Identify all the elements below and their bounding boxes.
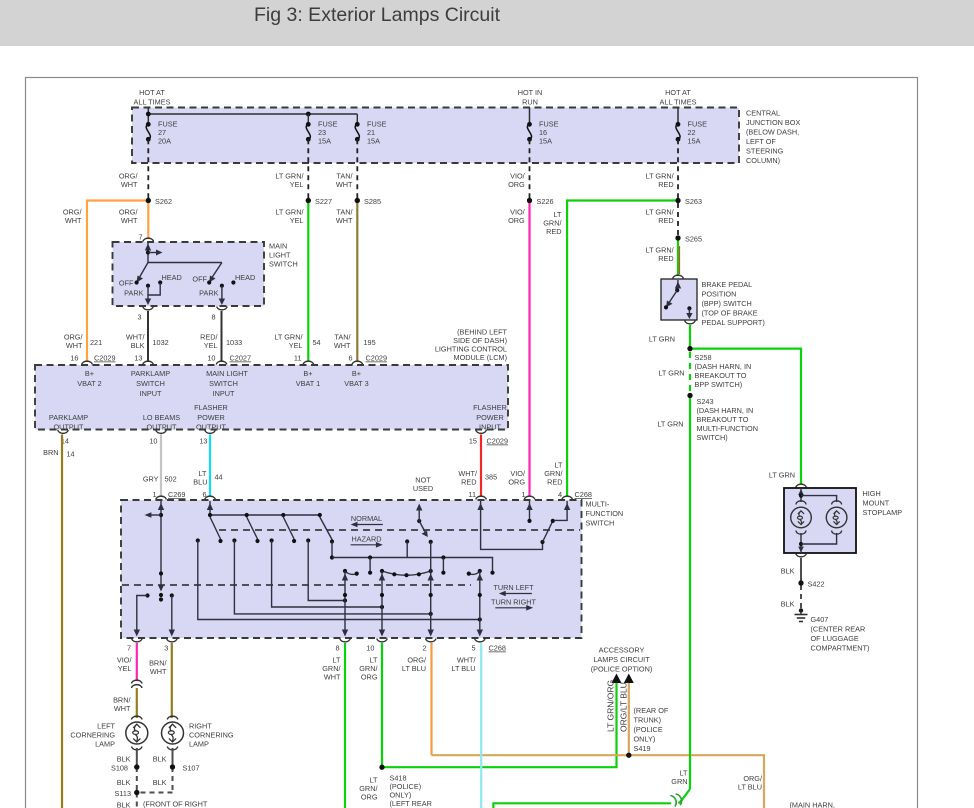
svg-text:15: 15 xyxy=(469,437,477,446)
svg-text:RED: RED xyxy=(461,478,476,487)
wire S419 to accessory lamps arrow (org/lt blu) xyxy=(628,683,630,755)
inline connector on left cornering feed xyxy=(132,680,143,683)
svg-text:(LEFT REAR: (LEFT REAR xyxy=(390,799,432,808)
MFS label NORMAL with arrow xyxy=(351,514,383,527)
svg-text:FLASHER: FLASHER xyxy=(194,403,228,412)
svg-text:RED: RED xyxy=(546,227,561,236)
svg-text:BLK: BLK xyxy=(781,600,795,609)
svg-text:LEFT OF: LEFT OF xyxy=(746,137,776,146)
svg-text:BPP SWITCH): BPP SWITCH) xyxy=(695,380,743,389)
svg-text:2: 2 xyxy=(422,644,426,653)
svg-text:221: 221 xyxy=(90,338,102,347)
MFS internal dashed detent line lower xyxy=(122,584,471,586)
svg-text:SWITCH: SWITCH xyxy=(586,519,615,528)
svg-text:1032: 1032 xyxy=(153,338,169,347)
svg-text:WHT: WHT xyxy=(65,216,82,225)
BPP internal switch xyxy=(664,280,693,319)
stoplamp internal wiring xyxy=(798,488,836,553)
dashed blk wires to S113 xyxy=(117,767,173,793)
svg-text:MODULE (LCM): MODULE (LCM) xyxy=(453,353,507,362)
svg-text:FLASHER: FLASHER xyxy=(473,403,507,412)
svg-text:CORNERING: CORNERING xyxy=(189,731,234,740)
svg-text:S113: S113 xyxy=(115,789,132,798)
wire S262 branch to LCM pin16 (orange) xyxy=(87,201,148,363)
wire S285 to LCM pin6 (tan) xyxy=(356,201,358,363)
svg-text:HOT AT: HOT AT xyxy=(139,88,165,97)
wire below S113 xyxy=(136,793,138,808)
svg-text:ACCESSORY: ACCESSORY xyxy=(599,646,645,655)
svg-text:RED: RED xyxy=(658,254,673,263)
svg-text:10: 10 xyxy=(366,644,374,653)
svg-text:BRN: BRN xyxy=(43,448,58,457)
wire fuse27 to S262 (dashed) xyxy=(147,139,149,198)
svg-text:(DASH HARN, IN: (DASH HARN, IN xyxy=(697,406,754,415)
MFS hazard pole and blade xyxy=(405,504,433,558)
LCM bottom pin 14 xyxy=(58,430,69,433)
label S419 rear of trunk xyxy=(634,706,669,753)
svg-text:NORMAL: NORMAL xyxy=(351,514,382,523)
svg-text:B+: B+ xyxy=(303,369,312,378)
svg-text:LT BLU: LT BLU xyxy=(451,664,475,673)
wire S263 branch to MFS pin4 (lt green) xyxy=(567,201,678,497)
MFS hanging contact 3 to pin 10 route xyxy=(270,538,385,609)
svg-text:16: 16 xyxy=(70,354,78,363)
svg-text:S243: S243 xyxy=(697,397,714,406)
wire LCM pin10 to MFS pin1 (gry) xyxy=(160,435,162,497)
title bar xyxy=(0,0,974,46)
splice S418 xyxy=(379,765,384,770)
CJB internal bus xyxy=(146,112,357,125)
svg-text:TURN RIGHT: TURN RIGHT xyxy=(491,598,537,607)
splice dots overlay xyxy=(134,198,803,795)
svg-text:YEL: YEL xyxy=(289,341,303,350)
wire S227 to LCM pin11 (lt green) xyxy=(307,201,309,363)
svg-text:OUTPUT: OUTPUT xyxy=(196,423,227,432)
svg-text:VBAT 1: VBAT 1 xyxy=(296,379,320,388)
MFS flasher blade 3 xyxy=(283,517,294,539)
svg-text:RUN: RUN xyxy=(522,98,538,107)
svg-text:C269: C269 xyxy=(168,490,185,499)
wire fuse23 to S227 (dashed) xyxy=(307,139,309,198)
svg-text:3: 3 xyxy=(137,313,141,322)
svg-text:C2027: C2027 xyxy=(230,354,252,363)
svg-text:OFF: OFF xyxy=(119,279,134,288)
svg-text:44: 44 xyxy=(215,473,223,482)
svg-text:USED: USED xyxy=(413,484,433,493)
svg-text:15A: 15A xyxy=(539,137,552,146)
svg-text:ORG: ORG xyxy=(361,673,378,682)
svg-text:BLU: BLU xyxy=(193,478,207,487)
svg-text:15A: 15A xyxy=(688,137,701,146)
svg-text:HOT AT: HOT AT xyxy=(665,88,691,97)
stoplamp bulb 1 xyxy=(791,501,812,534)
svg-text:VBAT 3: VBAT 3 xyxy=(344,379,368,388)
svg-text:(REAR OF: (REAR OF xyxy=(634,706,669,715)
svg-text:S226: S226 xyxy=(537,197,554,206)
MFS cornering pole from pin 1 xyxy=(145,501,165,602)
wire S258 to S243 (lt grn dashed) xyxy=(689,352,691,392)
svg-text:WHT: WHT xyxy=(336,180,353,189)
wire fuse22 to S263 (dashed) xyxy=(677,139,679,198)
svg-text:BLK: BLK xyxy=(153,755,167,764)
accessory feed arrow right xyxy=(624,674,634,684)
stoplamp bulb 2 xyxy=(826,501,847,534)
svg-text:INPUT: INPUT xyxy=(479,423,501,432)
svg-text:WHT: WHT xyxy=(324,673,341,682)
svg-text:14: 14 xyxy=(67,450,75,459)
left cornering lamp xyxy=(70,716,147,750)
MFS hanging contact 1 to pin 5 route xyxy=(196,538,482,621)
MFS hanging contact 2 to pin 2 route xyxy=(232,538,433,616)
svg-text:POSITION: POSITION xyxy=(702,290,737,299)
wire right lamp to S107 (blk) xyxy=(172,748,174,766)
MLS switch blade 2 (OFF/PARK/HEAD) xyxy=(192,263,255,306)
wire left lamp to S108 (blk) xyxy=(136,748,138,766)
svg-text:3: 3 xyxy=(164,644,168,653)
svg-text:11: 11 xyxy=(294,354,302,363)
MFS cornering right contact to pin 3 xyxy=(169,593,175,636)
svg-text:11: 11 xyxy=(468,490,476,499)
svg-text:8: 8 xyxy=(335,644,339,653)
wire BPP to S258 (lt grn) xyxy=(689,325,691,349)
svg-text:7: 7 xyxy=(127,644,131,653)
splice S108 xyxy=(134,764,139,769)
svg-text:S107: S107 xyxy=(183,764,200,773)
wire bend to rear harness connector xyxy=(679,789,691,803)
svg-text:PARKLAMP: PARKLAMP xyxy=(131,369,170,378)
svg-text:PEDAL SUPPORT): PEDAL SUPPORT) xyxy=(702,318,765,327)
svg-text:TRUNK): TRUNK) xyxy=(634,716,662,725)
svg-text:BRAKE PEDAL: BRAKE PEDAL xyxy=(702,280,753,289)
svg-text:MAIN LIGHT: MAIN LIGHT xyxy=(206,369,248,378)
svg-text:LT BLU: LT BLU xyxy=(402,664,426,673)
svg-text:502: 502 xyxy=(165,475,177,484)
wire MLS pin3 to LCM pin13 (wht/blk) xyxy=(147,311,149,362)
svg-text:G407: G407 xyxy=(811,615,829,624)
BPP connector bottom xyxy=(685,321,696,324)
svg-text:13: 13 xyxy=(134,354,142,363)
wire S262 to MLS pin7 (orange) xyxy=(147,201,149,240)
MFS hanging contact 4 to pin 8 route xyxy=(306,538,347,602)
svg-text:13: 13 xyxy=(199,437,207,446)
hot feed HOT AT ALL TIMES (right) xyxy=(660,88,697,124)
svg-text:POWER: POWER xyxy=(197,413,225,422)
svg-text:ORG: ORG xyxy=(508,180,525,189)
svg-text:HAZARD: HAZARD xyxy=(352,535,382,544)
svg-text:LT GRN: LT GRN xyxy=(769,471,795,480)
MFS label HAZARD with arrow xyxy=(351,535,383,548)
svg-text:LT BLU: LT BLU xyxy=(738,783,762,792)
svg-text:WHT: WHT xyxy=(114,704,131,713)
MFS cornering left contact to pin 7 xyxy=(134,593,150,636)
svg-text:S285: S285 xyxy=(364,197,381,206)
svg-text:YEL: YEL xyxy=(290,180,304,189)
svg-text:(MAIN HARN,: (MAIN HARN, xyxy=(790,801,835,808)
splice S262 xyxy=(146,198,151,203)
svg-text:(CENTER REAR: (CENTER REAR xyxy=(811,625,866,634)
svg-text:GRN: GRN xyxy=(671,777,687,786)
svg-text:8: 8 xyxy=(211,313,215,322)
svg-text:LEFT: LEFT xyxy=(97,722,115,731)
svg-text:(DASH HARN, IN: (DASH HARN, IN xyxy=(695,362,752,371)
wire MLS pin8 to LCM pin10 (red/yel) xyxy=(221,311,223,362)
accessory feed arrow left xyxy=(612,674,622,684)
wire stoplamp to S422 (blk) xyxy=(800,558,802,583)
wire S243 long run down (lt grn) xyxy=(689,396,691,790)
svg-text:S262: S262 xyxy=(155,197,172,206)
wire S263 to S265 (dashed) xyxy=(677,203,679,236)
svg-text:S422: S422 xyxy=(808,580,825,589)
svg-text:WHT: WHT xyxy=(121,180,138,189)
svg-text:BLK: BLK xyxy=(781,567,795,576)
svg-text:ORG: ORG xyxy=(361,793,378,802)
svg-text:LAMPS CIRCUIT: LAMPS CIRCUIT xyxy=(593,655,650,664)
wire MFS pin5 (wht/lt blu) down xyxy=(451,643,481,808)
svg-text:LT GRN: LT GRN xyxy=(657,420,683,429)
wire LCM pin13 to MFS pin6 (lt blu) xyxy=(209,435,211,497)
svg-text:(POLICE: (POLICE xyxy=(634,725,663,734)
wire fuse21 to S285 (dashed) xyxy=(356,139,358,198)
MFS internal dashed detent line upper xyxy=(219,529,580,531)
svg-text:20A: 20A xyxy=(158,137,171,146)
svg-text:JUNCTION BOX: JUNCTION BOX xyxy=(746,118,800,127)
svg-text:INPUT: INPUT xyxy=(140,389,162,398)
svg-text:15A: 15A xyxy=(318,137,331,146)
svg-text:1033: 1033 xyxy=(226,338,242,347)
svg-text:195: 195 xyxy=(364,338,376,347)
wire to left cornering lamp (brn/wht) xyxy=(113,688,137,718)
svg-text:ONLY): ONLY) xyxy=(634,735,656,744)
svg-text:TURN LEFT: TURN LEFT xyxy=(493,583,534,592)
rear lt grn horizontal wire xyxy=(493,803,671,808)
svg-text:YEL: YEL xyxy=(204,341,218,350)
splice S419 xyxy=(626,753,631,758)
stoplamp connector top xyxy=(796,484,807,487)
svg-text:STEERING: STEERING xyxy=(746,147,784,156)
svg-text:(BELOW DASH,: (BELOW DASH, xyxy=(746,128,799,137)
svg-text:SWITCH): SWITCH) xyxy=(697,433,728,442)
accessory lamps circuit label xyxy=(591,646,653,674)
splice S263 xyxy=(675,198,680,203)
MFS pin 8 internal vertical xyxy=(342,571,348,637)
svg-text:RED: RED xyxy=(547,478,562,487)
svg-text:MOUNT: MOUNT xyxy=(863,499,890,508)
svg-text:ALL TIMES: ALL TIMES xyxy=(660,98,697,107)
fuse 21 15A xyxy=(355,120,387,146)
svg-text:C2029: C2029 xyxy=(366,354,388,363)
MFS pin 5 internal vertical xyxy=(477,571,483,637)
svg-text:ORG: ORG xyxy=(508,478,525,487)
MLS pin 8 connector xyxy=(217,307,228,310)
svg-text:Fig 3: Exterior Lamps Circuit: Fig 3: Exterior Lamps Circuit xyxy=(254,4,501,26)
svg-text:S265: S265 xyxy=(685,235,702,244)
splice S422 xyxy=(798,580,803,585)
svg-text:HIGH: HIGH xyxy=(863,489,881,498)
svg-text:MULTI-: MULTI- xyxy=(586,500,610,509)
svg-text:SWITCH: SWITCH xyxy=(136,379,165,388)
svg-text:C268: C268 xyxy=(575,490,592,499)
svg-text:5: 5 xyxy=(471,644,475,653)
wire S418 to accessory lamps arrow (lt grn) xyxy=(382,683,617,767)
svg-text:ORG: ORG xyxy=(508,216,525,225)
wire S422 to ground (blk dashed) xyxy=(800,585,802,608)
svg-text:LT GRN: LT GRN xyxy=(658,369,684,378)
svg-text:RED: RED xyxy=(658,216,673,225)
svg-text:BLK: BLK xyxy=(117,778,131,787)
svg-text:HOT IN: HOT IN xyxy=(518,88,543,97)
svg-text:VBAT 2: VBAT 2 xyxy=(77,379,101,388)
svg-text:6: 6 xyxy=(348,354,352,363)
svg-text:BLK: BLK xyxy=(131,341,145,350)
wire LCM pin14 parklamp output (brn) xyxy=(61,435,63,808)
MLS pin 3 connector xyxy=(143,307,154,310)
BPP connector top xyxy=(673,275,684,278)
wire S419 horizontal to right drop (org/lt blu) xyxy=(432,755,765,808)
LCM bottom pin 13 xyxy=(205,430,216,433)
wire S258 to high mount stoplamp (lt grn) xyxy=(690,349,801,484)
svg-text:(POLICE OPTION): (POLICE OPTION) xyxy=(591,665,653,674)
MFS flasher feed bus from pin 6 xyxy=(207,501,322,517)
splice S226 xyxy=(527,198,532,203)
lighting control module box xyxy=(35,365,508,432)
svg-text:C2029: C2029 xyxy=(94,354,116,363)
right cornering lamp xyxy=(162,716,234,750)
svg-text:BREAKOUT TO: BREAKOUT TO xyxy=(697,415,749,424)
ground G407 xyxy=(795,608,870,652)
fuse 16 15A xyxy=(527,120,558,146)
svg-text:OF LUGGAGE: OF LUGGAGE xyxy=(811,634,859,643)
MFS pin 10 internal vertical xyxy=(379,571,385,637)
svg-text:WHT: WHT xyxy=(66,341,83,350)
splice S285 xyxy=(355,198,360,203)
wire MFS pin2 (org/lt blu) to S419 run xyxy=(402,643,432,755)
svg-text:WHT: WHT xyxy=(336,216,353,225)
svg-text:COMPARTMENT): COMPARTMENT) xyxy=(811,644,870,653)
svg-text:4: 4 xyxy=(558,490,562,499)
wire fuse16 to S226 (dashed) xyxy=(529,139,531,198)
fuse 22 15A xyxy=(676,120,707,146)
svg-text:CENTRAL: CENTRAL xyxy=(746,109,780,118)
svg-text:7: 7 xyxy=(138,233,142,242)
svg-text:(FRONT OF RIGHT: (FRONT OF RIGHT xyxy=(143,800,208,808)
svg-text:ORG/LT BLU: ORG/LT BLU xyxy=(619,682,629,732)
svg-text:OUTPUT: OUTPUT xyxy=(147,423,178,432)
svg-text:BREAKOUT TO: BREAKOUT TO xyxy=(695,371,747,380)
MFS pin 2 internal vertical xyxy=(428,542,434,637)
svg-text:385: 385 xyxy=(485,473,497,482)
hot feed HOT AT ALL TIMES (left) xyxy=(134,88,171,124)
svg-text:B+: B+ xyxy=(352,369,361,378)
MFS flasher blade 1 xyxy=(210,517,221,539)
LCM bottom pin 15 / C2029 xyxy=(476,430,487,433)
svg-text:SWITCH: SWITCH xyxy=(209,379,238,388)
svg-text:15A: 15A xyxy=(367,137,380,146)
MFS turn contact arc B xyxy=(380,569,433,577)
MFS bottom connectors xyxy=(132,639,143,642)
LCM location label xyxy=(435,328,508,363)
MFS label TURN LEFT with arrow xyxy=(493,583,534,596)
svg-text:RIGHT: RIGHT xyxy=(189,722,212,731)
MFS normal/hazard selector right xyxy=(477,501,570,549)
MFS inner bus to turn contacts xyxy=(332,555,495,574)
svg-text:C2029: C2029 xyxy=(487,437,509,446)
wire MFS pin8 (lt grn/wht) down xyxy=(322,643,345,808)
multi-function switch box xyxy=(121,500,623,639)
MFS flasher blade 2 xyxy=(247,517,258,539)
svg-text:PARK: PARK xyxy=(199,289,218,298)
wire S265 to BPP switch (lt green/red) xyxy=(677,238,679,276)
svg-text:LIGHT: LIGHT xyxy=(269,251,291,260)
wire S226 to MFS pin1 (violet) xyxy=(528,201,530,497)
main light switch box xyxy=(113,242,298,307)
svg-text:ALL TIMES: ALL TIMES xyxy=(134,98,171,107)
svg-text:BLK: BLK xyxy=(117,801,131,808)
svg-text:LT GRN: LT GRN xyxy=(649,335,675,344)
svg-text:LO BEAMS: LO BEAMS xyxy=(143,413,180,422)
svg-text:FUNCTION: FUNCTION xyxy=(586,509,624,518)
svg-text:COLUMN): COLUMN) xyxy=(746,156,780,165)
MFS label TURN RIGHT with arrow xyxy=(491,598,537,611)
svg-text:S258: S258 xyxy=(695,353,712,362)
splice S243 xyxy=(687,393,692,398)
svg-text:BLK: BLK xyxy=(153,778,167,787)
svg-text:(TOP OF BRAKE: (TOP OF BRAKE xyxy=(702,309,758,318)
wire MFS pin3 to right cornering lamp (brn/wht) xyxy=(149,643,172,718)
MFS flasher blade 4 to inner bus xyxy=(320,517,334,560)
svg-text:10: 10 xyxy=(149,437,157,446)
svg-text:S227: S227 xyxy=(315,197,332,206)
MFS top connectors xyxy=(156,496,167,499)
MFS turn contact arc C xyxy=(467,569,482,576)
svg-text:OFF: OFF xyxy=(192,275,207,284)
svg-text:MAIN: MAIN xyxy=(269,242,287,251)
splice S265 xyxy=(675,235,680,240)
fuse 27 20A xyxy=(146,120,178,146)
svg-text:POWER: POWER xyxy=(476,413,504,422)
splice S227 xyxy=(306,198,311,203)
svg-text:LAMP: LAMP xyxy=(95,740,115,749)
svg-text:BLK: BLK xyxy=(117,755,131,764)
MFS turn contact arc A xyxy=(343,569,359,576)
brake pedal position switch box xyxy=(661,279,765,327)
svg-text:S263: S263 xyxy=(685,197,702,206)
hot feed HOT IN RUN xyxy=(518,88,543,124)
svg-text:WHT: WHT xyxy=(121,216,138,225)
svg-text:S419: S419 xyxy=(634,744,651,753)
svg-text:WHT: WHT xyxy=(150,667,167,676)
svg-text:RED: RED xyxy=(658,180,673,189)
wire MFS pin7 (vio/yel) to inline connector xyxy=(117,643,137,681)
svg-text:GRY: GRY xyxy=(143,475,159,484)
MLS switch blade 1 (OFF/PARK/HEAD) xyxy=(119,263,182,306)
svg-text:10: 10 xyxy=(207,354,215,363)
svg-text:(BPP) SWITCH: (BPP) SWITCH xyxy=(702,299,752,308)
svg-text:HEAD: HEAD xyxy=(235,273,255,282)
svg-text:PARK: PARK xyxy=(124,289,143,298)
svg-text:WHT: WHT xyxy=(334,341,351,350)
LCM bottom pin 10 xyxy=(156,430,167,433)
svg-text:S108: S108 xyxy=(111,764,128,773)
rear inline connector arcs xyxy=(670,796,676,807)
svg-text:PARKLAMP: PARKLAMP xyxy=(49,413,88,422)
svg-text:C268: C268 xyxy=(489,644,506,653)
fuse 23 15A xyxy=(306,120,338,146)
central junction box xyxy=(132,108,800,166)
splice S113 xyxy=(134,790,139,795)
splice S258 xyxy=(687,346,692,351)
svg-text:MULTI-FUNCTION: MULTI-FUNCTION xyxy=(697,424,758,433)
stoplamp connector bottom xyxy=(796,554,807,557)
